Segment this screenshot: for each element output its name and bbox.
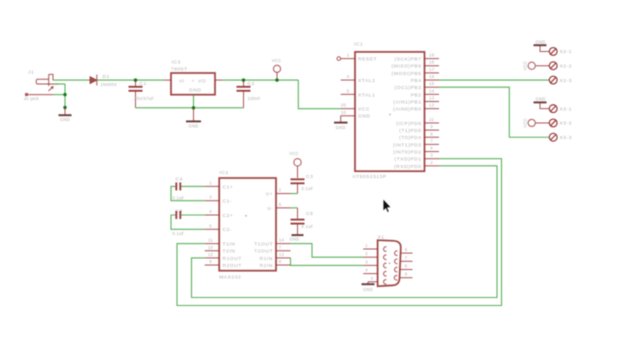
svg-text:AT90S2313P: AT90S2313P [353,174,387,180]
svg-text:X2-2: X2-2 [560,64,573,70]
svg-text:14: 14 [429,88,435,93]
svg-text:GND: GND [336,125,346,130]
svg-text:C4: C4 [176,177,183,183]
svg-text:GND: GND [289,236,299,241]
svg-text:3: 3 [209,195,212,200]
svg-text:V-: V- [267,206,273,212]
svg-text:17: 17 [429,67,435,72]
svg-text:12: 12 [208,252,214,257]
svg-text:VCC: VCC [289,151,299,156]
svg-text:20: 20 [341,103,347,108]
svg-text:T1OUT: T1OUT [254,242,273,248]
svg-text:16: 16 [429,74,435,79]
svg-text:GND: GND [363,287,373,292]
svg-text:9: 9 [430,124,433,129]
svg-text:7: 7 [405,255,408,260]
svg-text:(AIN1)PB1: (AIN1)PB1 [393,99,421,105]
svg-text:dc-jack: dc-jack [24,96,40,101]
svg-text:GND: GND [189,88,202,94]
svg-text:+: + [192,80,195,85]
svg-text:D1: D1 [103,74,110,80]
svg-text:(INT1)PD3: (INT1)PD3 [393,142,421,148]
svg-text:C1: C1 [140,81,147,87]
svg-text:T1IN: T1IN [223,242,236,248]
svg-text:C3: C3 [306,174,313,180]
svg-text:VCC: VCC [522,61,527,71]
svg-text:C2: C2 [248,81,255,87]
svg-text:13: 13 [279,252,285,257]
svg-text:2: 2 [430,160,433,165]
svg-text:C2+: C2+ [223,213,234,219]
svg-text:X3-3: X3-3 [560,135,573,141]
svg-text:8: 8 [405,264,408,269]
svg-text:7: 7 [430,138,433,143]
svg-text:(T0)PD4: (T0)PD4 [399,135,421,141]
svg-text:3: 3 [430,153,433,158]
svg-text:T2IN: T2IN [223,249,236,255]
svg-text:(INT0)PD2: (INT0)PD2 [393,150,421,156]
svg-text:11: 11 [208,238,213,243]
svg-text:8: 8 [430,131,433,136]
svg-text:GND: GND [188,124,198,129]
svg-text:GND: GND [60,117,70,122]
svg-text:X3-2: X3-2 [560,121,573,127]
svg-text:VCC: VCC [358,107,370,113]
svg-text:6: 6 [279,202,282,207]
svg-text:0.1uF: 0.1uF [302,224,314,229]
svg-text:C6: C6 [306,211,313,217]
svg-text:(TXD)PD1: (TXD)PD1 [395,157,422,163]
svg-text:V+: V+ [266,192,273,198]
svg-text:C1-: C1- [223,199,233,205]
svg-text:6: 6 [405,247,408,252]
svg-text:(ICP)PD6: (ICP)PD6 [396,121,421,127]
svg-text:(T1)PD5: (T1)PD5 [399,128,421,134]
svg-text:PB4: PB4 [411,78,422,84]
svg-text:IC1: IC1 [354,42,363,48]
svg-text:15: 15 [429,81,435,86]
svg-text:3: 3 [365,259,368,264]
svg-text:(OC1)PB3: (OC1)PB3 [395,85,422,91]
svg-text:GND: GND [535,97,545,102]
svg-text:9: 9 [209,259,212,264]
svg-text:5: 5 [347,88,350,93]
svg-text:1: 1 [365,243,368,248]
svg-text:1N4004: 1N4004 [101,82,118,87]
svg-text:6: 6 [430,146,433,151]
svg-text:19: 19 [429,53,435,58]
svg-text:5: 5 [371,276,374,281]
svg-text:R1IN: R1IN [260,256,273,262]
svg-text:12: 12 [429,103,435,108]
svg-text:PB2: PB2 [411,92,422,98]
svg-text:18: 18 [429,60,435,65]
svg-text:VCC: VCC [522,118,527,128]
svg-text:7: 7 [279,245,282,250]
svg-text:MAX232: MAX232 [219,274,241,280]
svg-text:0.1uF: 0.1uF [173,231,185,236]
svg-text:13: 13 [429,96,435,101]
svg-text:1: 1 [209,180,212,185]
svg-text:IC2: IC2 [220,170,229,176]
svg-text:GND: GND [358,114,371,120]
svg-text:X3-1: X3-1 [560,106,573,112]
svg-text:(AIN0)PB0: (AIN0)PB0 [393,107,421,113]
svg-text:(RXD)PD0: (RXD)PD0 [394,164,422,170]
svg-text:0.1uF: 0.1uF [173,196,185,201]
svg-text:RESET: RESET [358,57,377,63]
svg-text:XTAL2: XTAL2 [358,78,375,84]
svg-text:10: 10 [208,245,214,250]
svg-text:J1: J1 [28,70,34,76]
svg-text:5: 5 [209,223,212,228]
svg-text:0.1uF: 0.1uF [302,186,314,191]
svg-text:(SCK)PB7: (SCK)PB7 [395,57,422,63]
svg-text:2: 2 [279,188,282,193]
svg-text:R2OUT: R2OUT [223,263,242,269]
svg-text:(MOSI)PB5: (MOSI)PB5 [392,71,422,77]
svg-text:(MISO)PB6: (MISO)PB6 [392,64,422,70]
svg-text:VI: VI [179,79,185,85]
svg-text:4: 4 [347,74,350,79]
svg-text:T2OUT: T2OUT [254,249,273,255]
svg-text:25V/47uF: 25V/47uF [134,96,154,101]
svg-text:X2-1: X2-1 [560,49,573,55]
svg-text:4: 4 [209,209,212,214]
svg-text:10: 10 [341,110,347,115]
svg-text:2: 2 [365,251,368,256]
svg-text:VO: VO [198,79,206,85]
svg-text:100nF: 100nF [248,96,261,101]
svg-text:14: 14 [279,238,285,243]
svg-text:GND: GND [535,39,545,44]
svg-text:IC3: IC3 [172,60,181,66]
svg-text:8: 8 [279,259,282,264]
svg-text:9: 9 [405,272,408,277]
svg-text:R2IN: R2IN [260,263,273,269]
svg-text:VCC: VCC [272,58,282,63]
svg-text:C2-: C2- [223,227,233,233]
svg-text:4: 4 [365,268,368,273]
svg-text:1: 1 [347,53,350,58]
svg-text:R1OUT: R1OUT [223,256,242,262]
svg-text:X2-3: X2-3 [560,78,573,84]
svg-text:11: 11 [429,117,434,122]
svg-text:XTAL1: XTAL1 [358,92,375,98]
svg-text:C1+: C1+ [223,184,234,190]
svg-text:7805T: 7805T [171,66,188,72]
